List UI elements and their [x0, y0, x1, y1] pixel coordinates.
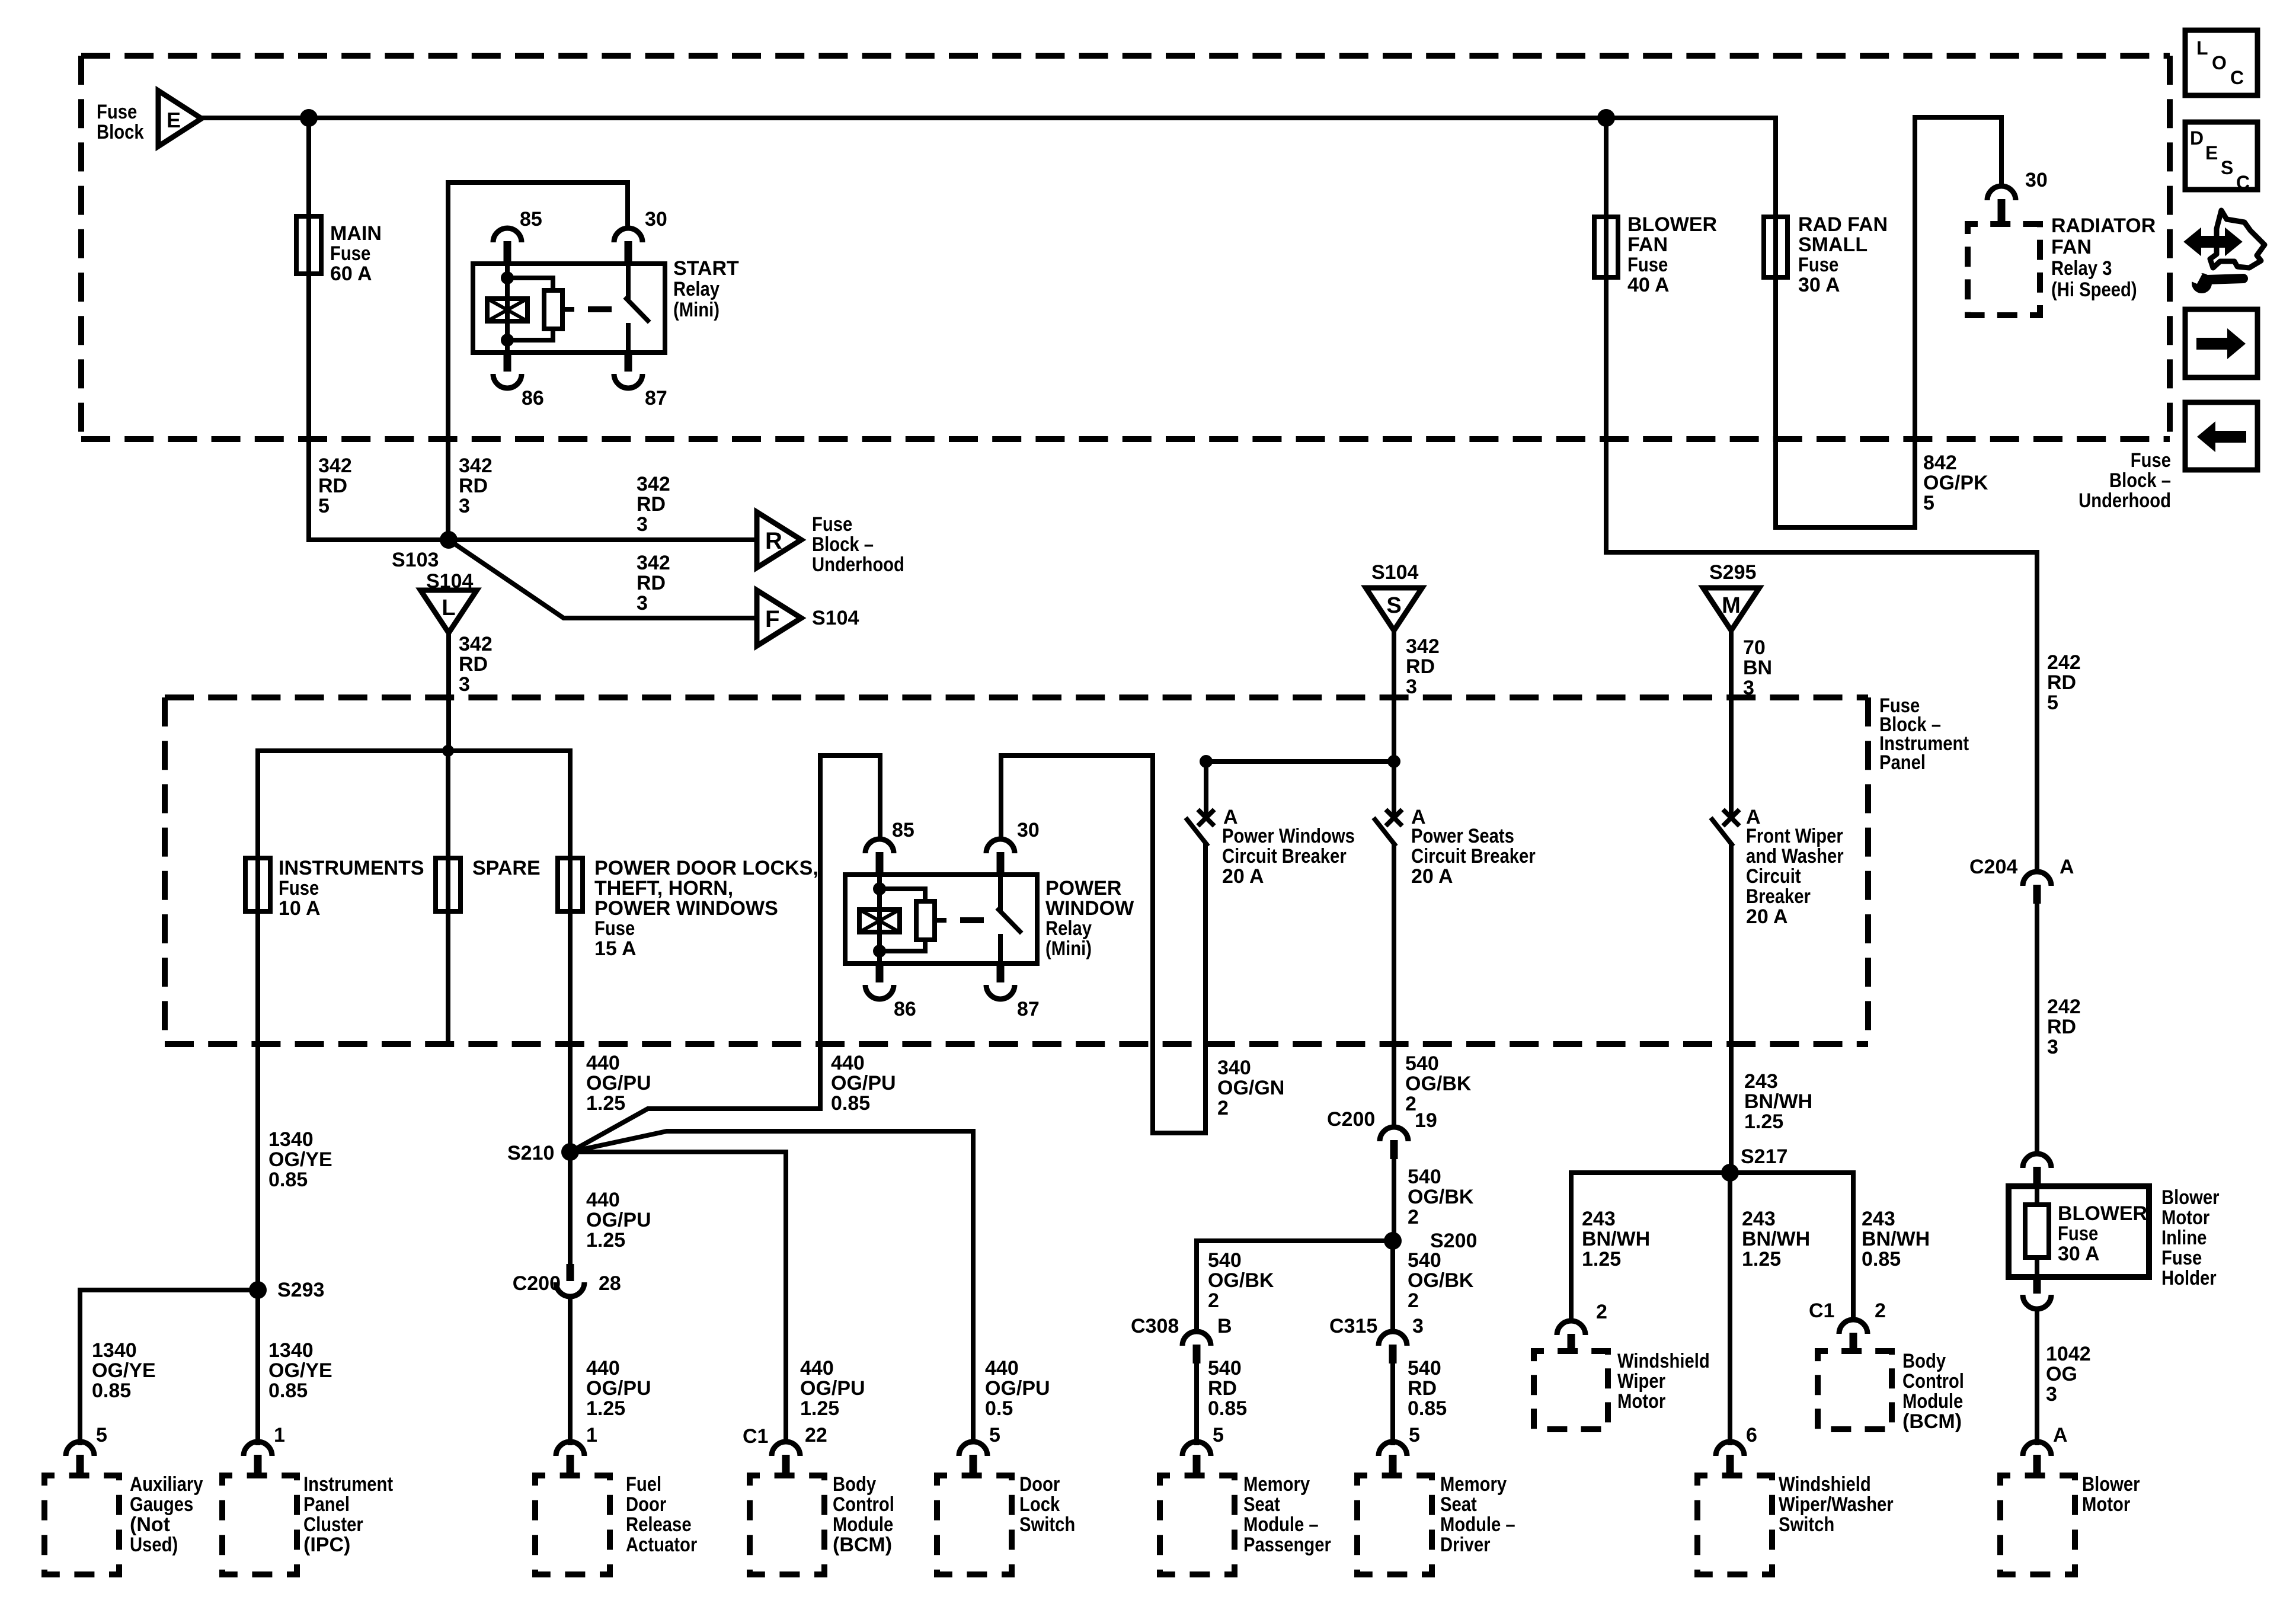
- svg-text:WINDOW: WINDOW: [1045, 897, 1134, 920]
- svg-text:20 A: 20 A: [1222, 865, 1264, 888]
- svg-text:0.85: 0.85: [92, 1379, 131, 1402]
- node bus at 342 RD 3 entry: [442, 745, 454, 757]
- svg-text:440: 440: [586, 1052, 620, 1074]
- svg-text:Circuit Breaker: Circuit Breaker: [1222, 845, 1347, 868]
- svg-text:Auxiliary: Auxiliary: [130, 1473, 203, 1496]
- svg-text:C1: C1: [1809, 1299, 1834, 1322]
- splice S217: [1721, 1164, 1739, 1182]
- svg-text:M: M: [1722, 593, 1741, 618]
- svg-text:RADIATOR: RADIATOR: [2051, 215, 2156, 237]
- relay resistor: [880, 889, 925, 901]
- svg-text:2: 2: [1596, 1301, 1607, 1323]
- svg-text:(Mini): (Mini): [673, 299, 720, 321]
- Blower Motor component box: [2000, 1475, 2075, 1574]
- svg-text:Memory: Memory: [1440, 1473, 1507, 1496]
- svg-text:87: 87: [645, 387, 667, 409]
- splice S103: [440, 531, 458, 549]
- svg-text:28: 28: [599, 1272, 621, 1295]
- svg-text:OG/BK: OG/BK: [1405, 1073, 1472, 1095]
- svg-text:Fuel: Fuel: [626, 1473, 661, 1496]
- circuit breaker A - Power Windows 20 A: [1200, 811, 1213, 824]
- svg-text:INSTRUMENTS: INSTRUMENTS: [279, 857, 424, 879]
- svg-text:0.85: 0.85: [831, 1092, 870, 1115]
- svg-text:O: O: [2212, 52, 2227, 73]
- radiator fan relay pin 30 connector: [1987, 186, 2016, 200]
- wire S210 down to C200: [568, 1152, 573, 1264]
- svg-text:Wiper: Wiper: [1617, 1370, 1665, 1393]
- svg-text:Blower: Blower: [2082, 1473, 2140, 1496]
- svg-text:342: 342: [459, 633, 493, 655]
- svg-text:S293: S293: [277, 1279, 324, 1301]
- svg-text:MAIN: MAIN: [330, 222, 382, 245]
- svg-text:Cluster: Cluster: [303, 1513, 363, 1536]
- splice S200: [1384, 1232, 1402, 1250]
- svg-text:(BCM): (BCM): [833, 1534, 892, 1556]
- Windshield Wiper/Washer Switch pin connector: [1716, 1442, 1744, 1456]
- svg-text:OG/BK: OG/BK: [1408, 1269, 1474, 1292]
- svg-text:RD: RD: [637, 493, 666, 516]
- svg-text:0.5: 0.5: [985, 1397, 1013, 1420]
- BCM C1 pin 2 connector: [1839, 1320, 1868, 1334]
- relay coil: [877, 875, 882, 964]
- Body Control Module (BCM) pin connector: [772, 1442, 800, 1456]
- wire front wiper breaker output to S217: [1729, 845, 1734, 1173]
- Fuel Door Release Actuator pin connector: [556, 1442, 584, 1456]
- wire S293 to auxiliary gauges: [80, 1290, 258, 1443]
- svg-text:RD: RD: [318, 475, 347, 497]
- LOC icon box: [2185, 30, 2257, 95]
- wire C200 to S200: [1392, 1158, 1396, 1241]
- svg-text:OG/PU: OG/PU: [831, 1072, 896, 1094]
- svg-text:Circuit: Circuit: [1746, 865, 1801, 888]
- svg-text:C315: C315: [1329, 1315, 1377, 1337]
- svg-text:5: 5: [1923, 492, 1934, 514]
- svg-text:30: 30: [1017, 819, 1040, 841]
- svg-text:OG/PU: OG/PU: [985, 1377, 1050, 1400]
- svg-text:OG/PK: OG/PK: [1923, 472, 1988, 494]
- svg-text:Block –: Block –: [2109, 469, 2171, 492]
- node power windows breaker tap: [1200, 755, 1213, 768]
- Instrument Panel Cluster component box: [222, 1475, 297, 1574]
- svg-text:Windshield: Windshield: [1779, 1473, 1871, 1496]
- svg-text:2: 2: [1875, 1299, 1886, 1322]
- svg-text:Control: Control: [1902, 1370, 1964, 1393]
- svg-text:70: 70: [1743, 636, 1766, 659]
- wire S217 to windshield wiper motor: [1571, 1173, 1730, 1321]
- svg-text:5: 5: [2047, 692, 2058, 714]
- main feed wire from E: [202, 116, 1776, 120]
- svg-text:Control: Control: [833, 1493, 894, 1516]
- svg-text:85: 85: [892, 819, 914, 841]
- svg-text:C: C: [2236, 172, 2250, 193]
- svg-text:RD: RD: [459, 475, 488, 497]
- connector R (Fuse Block - Underhood): [757, 512, 801, 568]
- wire C308 to memory seat passenger: [1194, 1362, 1199, 1443]
- svg-text:E: E: [2205, 142, 2218, 164]
- svg-text:C200: C200: [513, 1272, 561, 1295]
- svg-text:Blower: Blower: [2161, 1186, 2220, 1209]
- svg-text:OG/YE: OG/YE: [92, 1359, 156, 1382]
- node at MAIN fuse tap: [300, 109, 318, 127]
- svg-text:OG: OG: [2046, 1363, 2077, 1385]
- svg-text:RD: RD: [2047, 671, 2076, 694]
- svg-text:22: 22: [805, 1424, 827, 1446]
- svg-text:Release: Release: [626, 1513, 692, 1536]
- svg-text:A: A: [2053, 1424, 2068, 1446]
- wire S210 to BCM: [570, 1152, 786, 1442]
- svg-text:OG/PU: OG/PU: [586, 1209, 651, 1231]
- wire L to instrument panel bus: [446, 633, 451, 751]
- svg-text:Fuse: Fuse: [812, 513, 852, 536]
- svg-text:RD: RD: [459, 653, 488, 676]
- svg-text:440: 440: [586, 1189, 620, 1211]
- svg-text:Instrument: Instrument: [303, 1473, 393, 1496]
- svg-text:540: 540: [1408, 1249, 1441, 1272]
- wire feed loop to START relay pin 30: [448, 183, 628, 540]
- svg-text:S104: S104: [812, 607, 859, 629]
- svg-text:Fuse: Fuse: [279, 877, 319, 900]
- Memory Seat Module - Driver pin connector: [1379, 1442, 1407, 1456]
- svg-text:Underhood: Underhood: [812, 553, 904, 576]
- svg-text:86: 86: [894, 998, 916, 1020]
- svg-text:R: R: [765, 528, 782, 554]
- Body Control Module (BCM) right component box: [1818, 1351, 1892, 1429]
- relay pin 87 connector: [997, 964, 1005, 982]
- svg-text:BN: BN: [1743, 657, 1772, 679]
- svg-text:BN/WH: BN/WH: [1582, 1228, 1650, 1250]
- connector into blower inline fuse holder: [2023, 1154, 2051, 1168]
- svg-text:842: 842: [1923, 452, 1957, 474]
- wire feed to RAD FAN SMALL fuse to radiator fan relay: [1776, 117, 2001, 527]
- svg-text:Body: Body: [833, 1473, 876, 1496]
- svg-text:FAN: FAN: [2051, 236, 2092, 258]
- svg-text:RD: RD: [637, 572, 666, 594]
- svg-text:5: 5: [1213, 1424, 1224, 1446]
- svg-text:S295: S295: [1709, 561, 1756, 584]
- relay coil: [505, 264, 510, 353]
- svg-text:Fuse: Fuse: [2131, 449, 2171, 472]
- svg-text:40 A: 40 A: [1627, 274, 1670, 296]
- svg-text:540: 540: [1208, 1249, 1242, 1272]
- next-page arrow icon: [2185, 309, 2257, 377]
- fuse MAIN 60 A: [296, 216, 321, 274]
- Door Lock Switch pin connector: [959, 1442, 987, 1456]
- svg-text:87: 87: [1017, 998, 1040, 1020]
- wire SPARE fuse branch: [446, 751, 450, 1044]
- wire C315 to memory seat driver: [1390, 1362, 1395, 1443]
- icon wrench: [2192, 273, 2212, 293]
- svg-text:1042: 1042: [2046, 1343, 2091, 1365]
- svg-text:(Mini): (Mini): [1045, 937, 1092, 960]
- svg-text:540: 540: [1408, 1357, 1441, 1379]
- svg-text:342: 342: [637, 473, 670, 495]
- svg-text:2: 2: [1408, 1289, 1419, 1312]
- wire S210 to relay coil pin 85: [570, 756, 880, 1152]
- wire feed to BLOWER FAN fuse and across to blower circuit: [1606, 118, 2037, 552]
- svg-text:243: 243: [1862, 1208, 1895, 1230]
- svg-text:242: 242: [2047, 651, 2081, 674]
- relay pin 86 connector: [876, 964, 884, 982]
- relay body: [473, 264, 665, 353]
- svg-text:OG/PU: OG/PU: [586, 1072, 651, 1094]
- DESC icon box: [2185, 122, 2257, 190]
- wire S200 to C308: [1197, 1241, 1393, 1331]
- wire fuse holder to blower motor: [2035, 1309, 2039, 1443]
- connector below fuse holder: [2033, 1276, 2041, 1294]
- relay switch contact: [626, 264, 631, 297]
- Windshield Wiper Motor component box: [1534, 1351, 1608, 1429]
- wire E to MAIN fuse to S103: [306, 118, 311, 540]
- circuit breaker A - Front Wiper and Washer 20 A: [1725, 811, 1738, 824]
- wire S295 to front wiper breaker: [1729, 630, 1734, 812]
- svg-text:(Not: (Not: [130, 1513, 170, 1536]
- wire C204 to blower inline fuse holder: [2035, 902, 2039, 1154]
- svg-text:0.85: 0.85: [268, 1169, 308, 1191]
- instrument panel feed bus: [258, 748, 570, 753]
- relay body: [845, 875, 1037, 964]
- fuse SPARE: [436, 858, 461, 911]
- svg-text:RD: RD: [1408, 1377, 1437, 1400]
- circuit breaker A - Power Seats 20 A: [1387, 811, 1400, 824]
- svg-text:Door: Door: [626, 1493, 666, 1516]
- svg-text:5: 5: [318, 495, 330, 517]
- wire S210 to door lock switch: [570, 1131, 973, 1442]
- svg-text:START: START: [673, 257, 739, 280]
- blower motor inline fuse holder box: [2009, 1186, 2149, 1277]
- svg-text:Module: Module: [1902, 1390, 1963, 1413]
- svg-text:S104: S104: [1371, 561, 1418, 584]
- svg-text:C1: C1: [743, 1425, 768, 1448]
- fuse BLOWER 30 A: [2025, 1205, 2049, 1257]
- svg-text:3: 3: [1412, 1315, 1424, 1337]
- svg-text:Fuse: Fuse: [2161, 1247, 2202, 1269]
- svg-text:86: 86: [522, 387, 544, 409]
- wire relay pin 30 to power windows breaker output: [1001, 756, 1205, 1133]
- relay pin 85 connector: [865, 839, 894, 853]
- svg-text:0.85: 0.85: [1208, 1397, 1247, 1420]
- svg-text:L: L: [442, 596, 455, 620]
- svg-text:1340: 1340: [268, 1339, 314, 1362]
- connector C204 pin A: [2023, 872, 2051, 886]
- svg-text:Panel: Panel: [1879, 751, 1926, 774]
- svg-text:BN/WH: BN/WH: [1742, 1228, 1810, 1250]
- svg-text:SPARE: SPARE: [472, 857, 541, 879]
- splice S293: [249, 1281, 267, 1299]
- svg-text:5: 5: [989, 1424, 1000, 1446]
- wire C200 to fuel door release actuator: [568, 1297, 573, 1443]
- fuse POWER DOOR LOCKS 15 A: [558, 858, 583, 911]
- svg-text:Module –: Module –: [1440, 1513, 1515, 1536]
- connector L (S104 splice feed): [421, 590, 477, 633]
- svg-text:POWER DOOR LOCKS,: POWER DOOR LOCKS,: [594, 857, 818, 879]
- Memory Seat Module - Passenger component box: [1160, 1475, 1235, 1574]
- Memory Seat Module - Driver component box: [1357, 1475, 1432, 1574]
- svg-text:540: 540: [1405, 1052, 1439, 1075]
- svg-text:Power Seats: Power Seats: [1411, 825, 1514, 847]
- svg-text:Power Windows: Power Windows: [1222, 825, 1355, 847]
- svg-text:OG/PU: OG/PU: [800, 1377, 865, 1400]
- svg-text:Block: Block: [97, 121, 144, 143]
- svg-text:C204: C204: [1969, 856, 2017, 878]
- svg-text:Relay: Relay: [673, 278, 720, 300]
- svg-text:3: 3: [459, 673, 470, 696]
- previous-page arrow icon: [2185, 402, 2257, 470]
- svg-text:Fuse: Fuse: [97, 101, 137, 123]
- svg-text:0.85: 0.85: [1862, 1248, 1901, 1270]
- svg-text:Body: Body: [1902, 1350, 1946, 1372]
- icon double arrow: [2186, 231, 2240, 252]
- Fuse Block - Instrument Panel dashed enclosure: [165, 694, 1868, 700]
- svg-text:Memory: Memory: [1243, 1473, 1310, 1496]
- fuse INSTRUMENTS 10 A: [245, 858, 270, 911]
- svg-text:(Hi Speed): (Hi Speed): [2051, 279, 2137, 301]
- svg-text:1.25: 1.25: [586, 1397, 625, 1420]
- svg-text:2: 2: [1217, 1097, 1229, 1119]
- svg-text:Fuse: Fuse: [1798, 254, 1838, 276]
- svg-text:Fuse: Fuse: [330, 242, 370, 265]
- svg-text:1.25: 1.25: [800, 1397, 839, 1420]
- svg-text:OG/BK: OG/BK: [1408, 1186, 1474, 1208]
- svg-text:540: 540: [1408, 1166, 1441, 1188]
- svg-text:RD: RD: [2047, 1016, 2076, 1038]
- wire bus to POWER DOOR LOCKS fuse to S210: [568, 751, 573, 1152]
- svg-text:Block –: Block –: [812, 533, 874, 556]
- svg-text:Seat: Seat: [1243, 1493, 1280, 1516]
- svg-text:3: 3: [637, 513, 648, 536]
- svg-text:Module –: Module –: [1243, 1513, 1319, 1536]
- svg-text:342: 342: [1406, 635, 1440, 658]
- svg-text:1: 1: [274, 1424, 285, 1446]
- wire power seats breaker output 540 OG/BK: [1392, 845, 1396, 1127]
- svg-text:Fuse: Fuse: [2058, 1222, 2098, 1245]
- svg-text:Panel: Panel: [303, 1493, 350, 1516]
- svg-text:OG/BK: OG/BK: [1208, 1269, 1274, 1292]
- svg-text:OG/PU: OG/PU: [586, 1377, 651, 1400]
- svg-text:440: 440: [800, 1357, 834, 1379]
- svg-text:BN/WH: BN/WH: [1862, 1228, 1930, 1250]
- svg-text:OG/GN: OG/GN: [1217, 1077, 1284, 1099]
- wire S293 to IPC: [255, 1290, 260, 1443]
- svg-text:Door: Door: [1019, 1473, 1060, 1496]
- svg-text:5: 5: [96, 1424, 107, 1446]
- svg-text:Front Wiper: Front Wiper: [1746, 825, 1843, 847]
- svg-text:30 A: 30 A: [1798, 274, 1840, 296]
- Body Control Module (BCM) component box: [750, 1475, 824, 1574]
- wire MAIN fuse output to S103: [309, 537, 449, 542]
- svg-text:243: 243: [1742, 1208, 1776, 1230]
- svg-text:1.25: 1.25: [1742, 1248, 1781, 1270]
- connector F (S104): [757, 590, 801, 646]
- svg-text:B: B: [1217, 1315, 1232, 1337]
- svg-text:Used): Used): [130, 1534, 178, 1556]
- svg-text:C200: C200: [1327, 1108, 1375, 1131]
- svg-text:2: 2: [1208, 1289, 1219, 1312]
- svg-text:Motor: Motor: [2082, 1493, 2130, 1516]
- svg-text:RD: RD: [1208, 1377, 1237, 1400]
- svg-text:20 A: 20 A: [1746, 905, 1788, 928]
- svg-text:C308: C308: [1131, 1315, 1179, 1337]
- svg-text:340: 340: [1217, 1057, 1251, 1079]
- svg-text:C: C: [2230, 67, 2244, 88]
- svg-text:Relay 3: Relay 3: [2051, 257, 2112, 280]
- wire S104 feed to power windows breaker: [1206, 759, 1394, 764]
- svg-text:Inline: Inline: [2161, 1227, 2207, 1249]
- wire S104 into instrument panel: [1392, 630, 1396, 812]
- svg-text:1.25: 1.25: [1582, 1248, 1621, 1270]
- svg-text:THEFT, HORN,: THEFT, HORN,: [594, 877, 733, 900]
- connector M (S295): [1703, 588, 1760, 630]
- splice S210: [561, 1143, 579, 1161]
- svg-text:Fuse: Fuse: [1627, 254, 1668, 276]
- svg-text:3: 3: [637, 592, 648, 614]
- svg-text:60 A: 60 A: [330, 263, 372, 285]
- svg-text:242: 242: [2047, 996, 2081, 1018]
- svg-text:3: 3: [1743, 677, 1754, 699]
- Door Lock Switch component box: [937, 1475, 1012, 1574]
- svg-text:S: S: [2221, 157, 2233, 178]
- svg-text:Switch: Switch: [1019, 1513, 1075, 1536]
- svg-text:19: 19: [1415, 1109, 1437, 1132]
- svg-text:243: 243: [1744, 1070, 1778, 1093]
- svg-text:BLOWER: BLOWER: [1627, 213, 1717, 236]
- svg-text:and Washer: and Washer: [1746, 845, 1844, 868]
- svg-text:Wiper/Washer: Wiper/Washer: [1779, 1493, 1894, 1516]
- svg-text:E: E: [167, 108, 181, 132]
- svg-text:342: 342: [637, 552, 670, 574]
- svg-text:Passenger: Passenger: [1243, 1534, 1331, 1556]
- svg-text:POWER WINDOWS: POWER WINDOWS: [594, 897, 778, 920]
- svg-text:OG/YE: OG/YE: [268, 1148, 332, 1171]
- svg-text:3: 3: [459, 495, 470, 517]
- svg-text:1340: 1340: [268, 1128, 314, 1151]
- svg-text:S: S: [1386, 593, 1401, 618]
- svg-text:1.25: 1.25: [586, 1229, 625, 1251]
- svg-text:1.25: 1.25: [1744, 1110, 1783, 1133]
- svg-text:Switch: Switch: [1779, 1513, 1834, 1536]
- svg-text:3: 3: [2046, 1383, 2057, 1406]
- svg-text:Breaker: Breaker: [1746, 885, 1811, 908]
- wire blower feed down right side: [2035, 552, 2039, 872]
- wire S200 to C315: [1390, 1241, 1395, 1331]
- service hand-wrench icon: [2210, 210, 2265, 268]
- svg-text:S217: S217: [1741, 1145, 1787, 1168]
- Fuel Door Release Actuator component box: [535, 1475, 610, 1574]
- svg-text:342: 342: [318, 454, 352, 477]
- svg-text:FAN: FAN: [1627, 233, 1668, 256]
- svg-text:342: 342: [459, 454, 493, 477]
- svg-text:POWER: POWER: [1045, 877, 1121, 900]
- svg-text:10 A: 10 A: [279, 897, 321, 920]
- relay switch contact: [998, 875, 1003, 908]
- svg-text:RD: RD: [1406, 655, 1435, 678]
- Memory Seat Module - Passenger pin connector: [1182, 1442, 1211, 1456]
- svg-text:85: 85: [520, 208, 542, 231]
- node S104 wire at breaker bus: [1387, 755, 1400, 768]
- svg-text:S210: S210: [507, 1142, 554, 1164]
- wire bus to INSTRUMENTS fuse to S293: [255, 751, 260, 1290]
- svg-text:30: 30: [2025, 169, 2048, 191]
- svg-text:Actuator: Actuator: [626, 1534, 697, 1556]
- connector C308 pin B: [1182, 1331, 1211, 1346]
- relay pin 30 connector: [614, 228, 642, 242]
- svg-text:1340: 1340: [92, 1339, 137, 1362]
- windshield wiper motor pin 2 connector: [1557, 1321, 1585, 1335]
- svg-text:Seat: Seat: [1440, 1493, 1477, 1516]
- connector C315 pin 3: [1379, 1331, 1407, 1346]
- fuse BLOWER FAN 40 A: [1594, 217, 1618, 277]
- svg-text:30: 30: [645, 208, 667, 231]
- connector C200 pin 19: [1380, 1127, 1408, 1141]
